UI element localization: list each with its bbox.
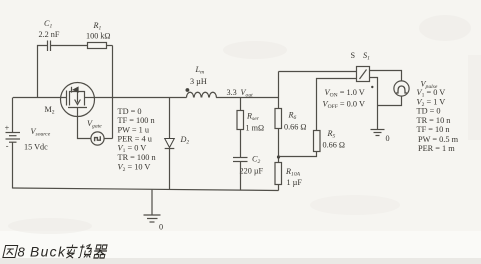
svg-text:8: 8 — [18, 245, 26, 260]
svg-text:S: S — [351, 51, 356, 60]
svg-text:2.2 nF: 2.2 nF — [39, 30, 60, 39]
svg-text:0: 0 — [386, 134, 390, 143]
caption: figure 8 Buck converter — [3, 246, 18, 258]
wire: Vgate to riser — [104, 138, 112, 140]
svg-text:3.3: 3.3 — [227, 88, 237, 97]
wire: C2 to bottom rail — [240, 162, 242, 191]
ground 0 (bottom center) — [144, 190, 161, 222]
wire: node to R5 — [279, 152, 317, 157]
wire: left rail below battery — [12, 143, 14, 189]
svg-text:+: + — [5, 124, 10, 133]
svg-text:0.66 Ω: 0.66 Ω — [323, 141, 345, 150]
resistor R10A — [275, 163, 282, 185]
svg-text:PER = 4 u: PER = 4 u — [118, 135, 152, 144]
junction node dot — [277, 155, 280, 158]
svg-text:V2 = 10 V: V2 = 10 V — [118, 162, 151, 173]
svg-text:1 mΩ: 1 mΩ — [246, 124, 265, 133]
source Vgate (pulse) — [91, 132, 104, 145]
svg-text:TR = 100 n: TR = 100 n — [118, 153, 157, 162]
wire: M2 source lead down and to Vgate — [78, 116, 92, 138]
resistor R1 — [88, 43, 107, 49]
inductor Lm — [187, 92, 217, 97]
wire: left rail vertical above battery — [12, 98, 14, 133]
svg-text:PER = 1 m: PER = 1 m — [418, 144, 455, 153]
svg-text:220 µF: 220 µF — [240, 167, 264, 176]
capacitor C1 — [48, 41, 51, 52]
svg-text:TF = 10 n: TF = 10 n — [417, 125, 451, 134]
capacitor C2 — [233, 158, 248, 162]
svg-text:0: 0 — [159, 223, 163, 232]
svg-text:TR = 10 n: TR = 10 n — [417, 116, 452, 125]
glyph tu (picture) — [3, 246, 18, 258]
M2 body diode mark — [72, 86, 78, 93]
svg-text:15 Vdc: 15 Vdc — [24, 143, 48, 152]
svg-text:3 µH: 3 µH — [190, 77, 207, 86]
wire: main node line M2 to inductor — [95, 97, 187, 99]
wire: riser x=112.5 from R1 down to Vgate level — [112, 46, 114, 139]
switch S1 — [357, 67, 370, 82]
wire: bottom rail — [13, 188, 279, 191]
svg-text:TD = 0: TD = 0 — [417, 106, 441, 115]
wire: Rser/C2 branch riser — [240, 98, 242, 111]
Vpulse parameter text — [417, 88, 459, 153]
glyph huan (exchange) — [78, 245, 93, 258]
attribute dot — [371, 86, 373, 88]
transistor M2 (power MOSFET) — [61, 83, 95, 117]
svg-text:PW = 0.5 m: PW = 0.5 m — [418, 135, 459, 144]
wire: Rser to C2 — [240, 130, 242, 158]
svg-text:1 µF: 1 µF — [287, 178, 303, 187]
resistor R6 — [275, 109, 282, 129]
wire: left rail top from Vsource to M2 gate — [13, 97, 67, 99]
svg-text:Buck: Buck — [30, 245, 66, 260]
svg-text:TD = 0: TD = 0 — [118, 107, 142, 116]
wire: R6 bottom to R10A top — [278, 129, 280, 163]
resistor Rser — [237, 111, 244, 130]
svg-text:-: - — [6, 142, 9, 151]
Vsource battery V1 — [6, 133, 21, 143]
wire: R1 to riser — [107, 45, 113, 47]
svg-text:TF = 100 n: TF = 100 n — [118, 116, 156, 125]
glyph qi (device) — [93, 245, 109, 258]
inductor polarity dot — [186, 88, 190, 92]
gate source parameter text — [118, 107, 157, 173]
wire: inductor to output node — [216, 97, 278, 99]
wire: Vpulse bottom to ground line — [378, 96, 402, 105]
resistor R5 — [314, 131, 321, 152]
diode D2 — [169, 98, 171, 139]
wire: switch lower pin to ground — [370, 78, 378, 130]
wire: output riser up to switch line and down to R6 — [278, 72, 280, 109]
ground 0 (right) — [371, 130, 385, 136]
wire: C1 riser from node at (37.5,97.5) — [38, 46, 48, 98]
wire: output node to switch — [279, 71, 357, 73]
svg-text:PW = 1 u: PW = 1 u — [118, 125, 150, 134]
wire: R5 riser to switch control — [317, 79, 357, 131]
wire: C1 to R1 — [51, 45, 88, 47]
wire: switch to Vpulse — [370, 71, 402, 82]
wire: R10A to bottom rail — [278, 185, 280, 191]
svg-text:100 kΩ: 100 kΩ — [86, 32, 111, 41]
source Vpulse — [394, 81, 409, 96]
glyph bian (change) — [64, 245, 78, 259]
svg-text:0.66 Ω: 0.66 Ω — [284, 122, 306, 131]
